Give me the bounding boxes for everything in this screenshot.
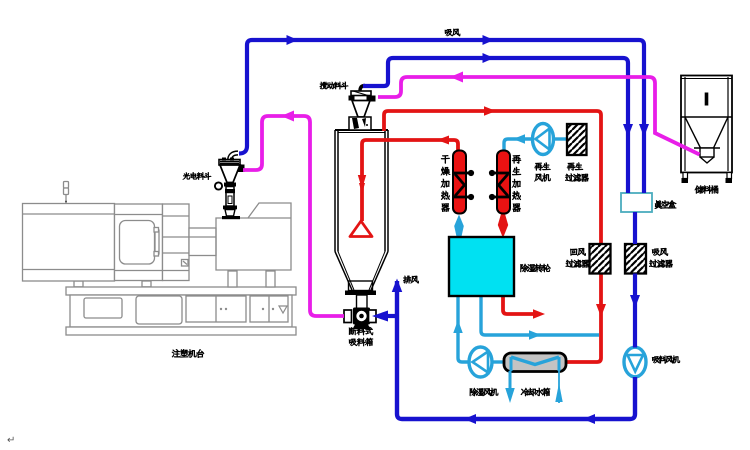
svg-text:↵: ↵: [7, 435, 15, 446]
